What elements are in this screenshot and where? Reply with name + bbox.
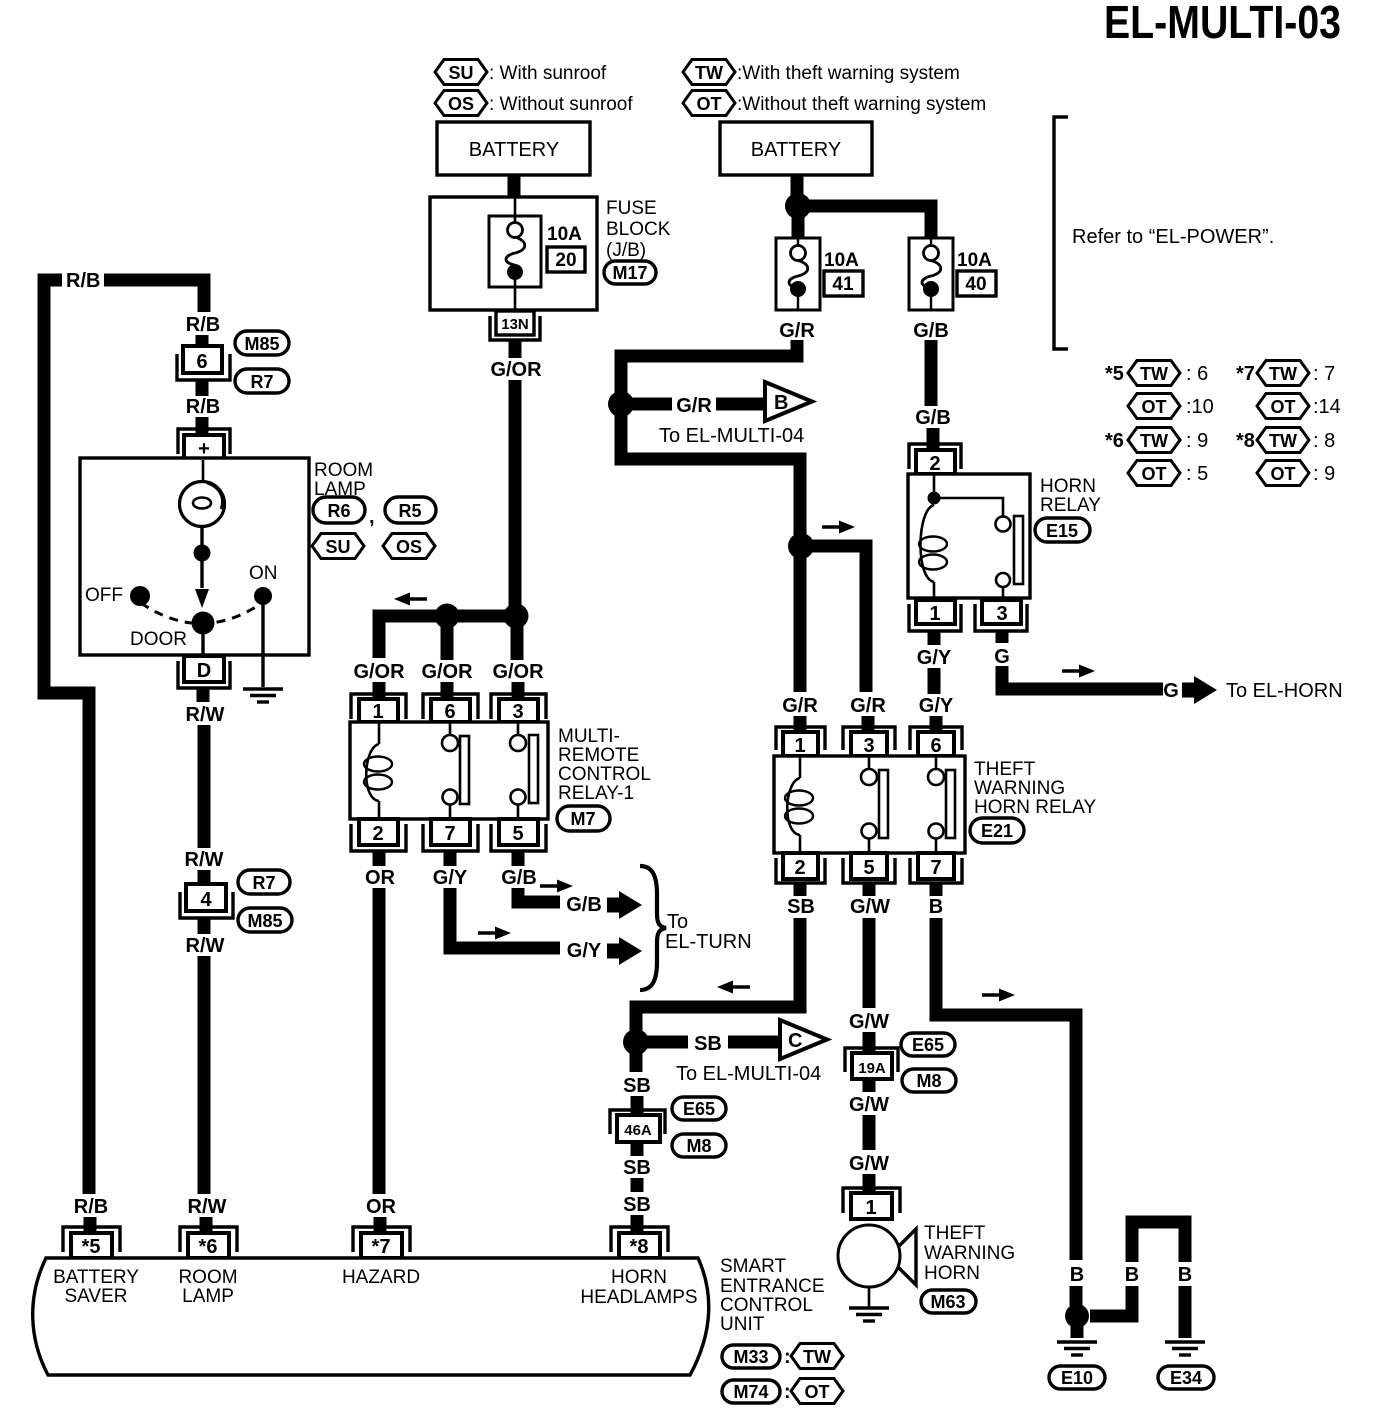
svg-text:TW: TW — [1269, 431, 1297, 451]
svg-text:EL-MULTI-03: EL-MULTI-03 — [1104, 0, 1341, 48]
big arrow to EL-HORN — [1182, 676, 1217, 704]
svg-text:RELAY-1: RELAY-1 — [558, 783, 634, 804]
svg-text:41: 41 — [832, 274, 854, 295]
svg-text:EL-TURN: EL-TURN — [665, 931, 752, 953]
svg-text:TW: TW — [1269, 364, 1297, 384]
wire G/B fuse40 down — [925, 340, 938, 406]
M7 pin 1 — [351, 694, 406, 723]
arrow right above B wire — [982, 989, 1015, 1002]
svg-text:1: 1 — [865, 1197, 876, 1219]
svg-text:M7: M7 — [570, 809, 595, 829]
horn trumpet — [898, 1229, 916, 1285]
svg-text:To EL-MULTI-04: To EL-MULTI-04 — [676, 1063, 821, 1085]
svg-text:TW: TW — [695, 63, 723, 83]
svg-text:M33: M33 — [733, 1347, 768, 1367]
E15 pin 3 — [975, 600, 1027, 631]
svg-text:10A: 10A — [824, 250, 859, 271]
wire OR down to *7 — [373, 888, 386, 1194]
svg-text:E65: E65 — [912, 1035, 944, 1055]
bracket refer to EL-POWER — [1054, 117, 1068, 349]
svg-text:HORN: HORN — [924, 1263, 980, 1284]
wire G/OR feed down to bus — [509, 380, 522, 620]
svg-text:M8: M8 — [686, 1136, 711, 1156]
wire DOOR contact down — [201, 633, 204, 656]
switch contact ON dot — [254, 587, 272, 605]
connector *8 — [611, 1227, 668, 1258]
connector E34 oval — [1158, 1366, 1214, 1389]
svg-text:M63: M63 — [930, 1292, 965, 1312]
svg-text::10: :10 — [1186, 396, 1214, 418]
fuse number 41 box — [824, 271, 863, 296]
wire stub to E15 connector 2 — [927, 428, 940, 450]
svg-text:HORN: HORN — [611, 1267, 667, 1288]
wire stub below M7 pin5 — [512, 851, 525, 866]
wire stub to *5 — [84, 1217, 97, 1234]
node C junction dot — [788, 533, 814, 559]
wire node E to SB label — [645, 1036, 688, 1049]
svg-text:G/W: G/W — [849, 1094, 889, 1116]
svg-text:FUSE: FUSE — [606, 198, 657, 219]
svg-text:G: G — [1163, 680, 1179, 702]
E21 pin 2 — [776, 853, 825, 883]
wire SB down-left to node E — [636, 918, 800, 1034]
svg-text:3: 3 — [863, 735, 874, 757]
room lamp + connector — [178, 429, 230, 460]
svg-text:SAVER: SAVER — [64, 1286, 127, 1307]
E15 pin 1 — [909, 600, 961, 631]
svg-text:SB: SB — [623, 1157, 651, 1179]
wire SB segment — [631, 1178, 644, 1192]
svg-text:G/Y: G/Y — [917, 647, 952, 669]
svg-text:HAZARD: HAZARD — [342, 1267, 420, 1288]
svg-text:ON: ON — [249, 563, 278, 584]
svg-text:G/W: G/W — [849, 1011, 889, 1033]
svg-text:*5: *5 — [1105, 363, 1124, 385]
triangle connector B — [765, 382, 812, 421]
svg-text:D: D — [197, 660, 211, 682]
svg-text:THEFT: THEFT — [924, 1223, 986, 1244]
legend TW hexagon — [683, 60, 735, 85]
connector R5 oval — [385, 497, 436, 523]
junction dot G/OR bus feed — [504, 604, 529, 629]
room lamp box — [80, 458, 309, 655]
connector M85 oval (4) — [238, 908, 292, 932]
connector E10 oval — [1049, 1366, 1105, 1389]
svg-text:R/B: R/B — [186, 396, 220, 418]
connector *7 — [353, 1227, 410, 1258]
svg-text:1: 1 — [929, 603, 940, 625]
svg-text::With theft warning system: :With theft warning system — [737, 63, 960, 84]
fuse number 40 box — [957, 271, 996, 296]
horn connector 1 — [843, 1188, 900, 1219]
svg-text:R6: R6 — [327, 501, 350, 521]
theft warning horn circle — [838, 1225, 900, 1287]
connector M7 oval — [557, 806, 610, 831]
footnote OT 14 — [1257, 394, 1309, 419]
svg-text:R/B: R/B — [74, 1196, 108, 1218]
connector E65 oval (46A) — [672, 1097, 726, 1120]
wire stub to 46A — [631, 1096, 644, 1114]
wire stub to E21 pin6 — [930, 716, 943, 732]
wire node B down to node C — [621, 404, 800, 540]
svg-text:G/R: G/R — [850, 695, 886, 717]
connector 19A — [845, 1048, 898, 1079]
fuse 10A 40 — [909, 238, 953, 310]
OS hexagon (room lamp) — [383, 534, 435, 559]
svg-text:G/Y: G/Y — [567, 940, 602, 962]
E21 contact pin6-7 — [935, 756, 938, 769]
svg-text:To EL-MULTI-04: To EL-MULTI-04 — [659, 425, 804, 447]
svg-text:: 7: : 7 — [1313, 363, 1335, 385]
svg-text:2: 2 — [929, 453, 940, 475]
footnote OT 10 — [1128, 394, 1180, 419]
svg-text:*6: *6 — [199, 1236, 218, 1258]
wire stub below connector 4 — [198, 918, 211, 934]
svg-text:CONTROL: CONTROL — [720, 1295, 813, 1316]
E15 connector 2 — [909, 444, 961, 475]
svg-text:SB: SB — [623, 1075, 651, 1097]
wire G/Y branch — [450, 888, 560, 948]
wire junction to fuse 41 — [792, 206, 805, 238]
svg-text:7: 7 — [444, 823, 455, 845]
svg-text:OFF: OFF — [85, 585, 123, 606]
svg-text:G/W: G/W — [849, 1153, 889, 1175]
wire stub below E21 pin2 — [794, 883, 807, 896]
svg-text:R/W: R/W — [185, 849, 224, 871]
switch dashed arc — [141, 603, 262, 624]
svg-text:ROOM: ROOM — [178, 1267, 237, 1288]
svg-text:SB: SB — [623, 1194, 651, 1216]
svg-text:WARNING: WARNING — [924, 1243, 1015, 1264]
svg-text:OT: OT — [697, 94, 722, 114]
svg-text::: : — [784, 1381, 791, 1403]
svg-text:(J/B): (J/B) — [606, 240, 646, 261]
svg-text:*5: *5 — [82, 1236, 101, 1258]
svg-text:10A: 10A — [547, 224, 582, 245]
switch junction dot — [194, 545, 211, 562]
wire G/Y segment — [928, 668, 941, 694]
svg-text:HEADLAMPS: HEADLAMPS — [580, 1287, 697, 1308]
connector E65 oval (19A) — [901, 1033, 955, 1056]
svg-text:*8: *8 — [1236, 430, 1255, 452]
svg-text:*7: *7 — [372, 1236, 391, 1258]
junction dot below battery B2 — [785, 193, 811, 219]
svg-text:G/Y: G/Y — [433, 867, 468, 889]
M7 pin 7 — [423, 819, 478, 851]
relay M7 body — [350, 722, 548, 819]
svg-text:TW: TW — [1140, 364, 1168, 384]
svg-text:UNIT: UNIT — [720, 1314, 765, 1335]
wire stub below E15 pin3 — [996, 631, 1009, 643]
connector M33 oval — [722, 1345, 780, 1368]
wire stub below E15 pin1 — [928, 631, 941, 645]
svg-text:E15: E15 — [1046, 521, 1078, 541]
svg-text:OT: OT — [1142, 397, 1167, 417]
wire stub to E21 pin3 — [862, 716, 875, 732]
svg-text:E34: E34 — [1170, 1368, 1202, 1388]
SU hexagon (room lamp) — [312, 534, 364, 559]
arrow left above SB wire — [717, 981, 750, 994]
svg-text:*8: *8 — [630, 1236, 649, 1258]
wire R/W segment 1 — [198, 725, 211, 848]
wire bus to G/OR label pin3 — [511, 616, 524, 660]
wire G/R label to triangle B — [716, 398, 764, 411]
wire stub to horn connector — [863, 1174, 876, 1192]
B jumper top bar — [1132, 1222, 1185, 1262]
connector *6 — [180, 1227, 237, 1258]
svg-text:ROOM: ROOM — [314, 460, 373, 481]
svg-text:TW: TW — [1140, 431, 1168, 451]
wire stub to *7 — [374, 1217, 387, 1234]
svg-text:SU: SU — [448, 63, 473, 83]
wire stub below M7 pin2 — [373, 851, 386, 866]
horn relay E15 body — [908, 474, 1030, 598]
wire stub to node F — [1070, 1286, 1083, 1306]
svg-text:ENTRANCE: ENTRANCE — [720, 1276, 825, 1297]
svg-text:R/W: R/W — [188, 1196, 227, 1218]
svg-text:To: To — [667, 911, 688, 933]
triangle connector C — [780, 1020, 827, 1059]
wire stub below 46A — [631, 1142, 644, 1156]
svg-text:OT: OT — [1142, 464, 1167, 484]
svg-text:*6: *6 — [1105, 430, 1124, 452]
wire stub to *8 — [631, 1215, 644, 1233]
svg-text:OT: OT — [805, 1382, 830, 1402]
svg-text:WARNING: WARNING — [974, 778, 1065, 799]
svg-text:To EL-HORN: To EL-HORN — [1226, 680, 1343, 702]
wire stub below E21 pin5 — [863, 883, 876, 896]
svg-text:: 6: : 6 — [1186, 363, 1208, 385]
svg-text:TW: TW — [803, 1347, 831, 1367]
svg-text:R/W: R/W — [186, 704, 225, 726]
E15 internal top line and dot — [933, 474, 936, 492]
OT hexagon (M74) — [791, 1379, 843, 1404]
connector M74 oval — [722, 1380, 780, 1403]
svg-text:R5: R5 — [398, 501, 421, 521]
node B junction dot — [608, 391, 634, 417]
connector E21 oval — [970, 818, 1024, 843]
E15 contact wire to switch — [940, 498, 1003, 516]
connector 13N — [490, 311, 540, 340]
svg-text:B: B — [1070, 1264, 1084, 1286]
svg-text:SB: SB — [787, 896, 815, 918]
svg-text:THEFT: THEFT — [974, 759, 1036, 780]
node F junction dot — [1065, 1304, 1089, 1328]
svg-text:: 9: : 9 — [1313, 463, 1335, 485]
theft warning horn relay E21 body — [774, 756, 965, 853]
legend SU hexagon — [435, 60, 487, 85]
svg-text:46A: 46A — [624, 1122, 652, 1139]
svg-text:SU: SU — [325, 537, 350, 557]
wire stub below 19A — [863, 1079, 876, 1092]
svg-text:G/W: G/W — [850, 896, 890, 918]
big arrow G/Y to EL-TURN — [607, 937, 642, 965]
brace to EL-TURN — [640, 866, 666, 990]
room lamp bulb line — [202, 460, 205, 483]
svg-text:HORN: HORN — [1040, 476, 1096, 497]
wire G/W segment 1 — [863, 918, 876, 1008]
ground E10 symbol — [1057, 1342, 1097, 1355]
svg-text:4: 4 — [200, 889, 212, 911]
big arrow G/B to EL-TURN — [607, 891, 642, 919]
svg-text:G/B: G/B — [501, 867, 537, 889]
svg-text:10A: 10A — [957, 250, 992, 271]
wire node C down — [794, 546, 807, 692]
connector M8 oval (46A) — [672, 1134, 726, 1157]
svg-text:G/OR: G/OR — [353, 661, 405, 683]
wire node C branch right to x866 — [801, 546, 866, 692]
horn ground — [868, 1287, 871, 1307]
svg-text:RELAY: RELAY — [1040, 495, 1101, 516]
wire stub to connector 6 — [196, 335, 209, 348]
connector M85 oval (6) — [235, 331, 289, 355]
svg-text:G/R: G/R — [782, 695, 818, 717]
svg-text:B: B — [929, 896, 943, 918]
M7 contact pin3-5 — [517, 722, 520, 735]
svg-text:OS: OS — [396, 537, 422, 557]
svg-text:MULTI-: MULTI- — [558, 726, 620, 747]
svg-text:G/Y: G/Y — [919, 695, 954, 717]
svg-text:1: 1 — [372, 701, 383, 723]
connector M63 oval — [921, 1290, 976, 1313]
arrow right above G/B branch — [540, 880, 573, 893]
wire stub to 19A — [863, 1032, 876, 1052]
E21 pin 7 — [910, 853, 962, 883]
E21 pin 3 — [843, 727, 895, 757]
svg-text:G/B: G/B — [913, 320, 949, 342]
wire node F to ground E10 — [1071, 1316, 1084, 1338]
svg-text:R/B: R/B — [66, 270, 100, 292]
wire B from E21 pin7 down-right — [936, 918, 1076, 1260]
footnote OT 5 — [1128, 461, 1180, 486]
battery B1 — [437, 122, 590, 175]
arrow right above branch — [822, 521, 855, 534]
svg-text:G/OR: G/OR — [490, 359, 542, 381]
wire stub to M7 pin6 — [441, 682, 454, 700]
connector M8 oval (19A) — [902, 1069, 956, 1092]
wire stub to M7 pin3 — [512, 682, 525, 700]
svg-text:R7: R7 — [252, 873, 275, 893]
svg-text:C: C — [788, 1030, 802, 1052]
svg-text:M8: M8 — [916, 1071, 941, 1091]
wire G to EL-HORN — [1002, 666, 1163, 689]
wire jumper right leg to ground E34 — [1179, 1286, 1192, 1338]
connector R6 oval — [313, 497, 365, 523]
fuse block J/B box — [430, 197, 597, 310]
svg-text:DOOR: DOOR — [130, 629, 187, 650]
legend OS hexagon — [435, 91, 487, 116]
wire jumper left leg to node F — [1090, 1286, 1132, 1316]
wire node E down — [630, 1042, 643, 1072]
wire battery B2 down — [791, 175, 804, 200]
svg-text:SB: SB — [694, 1033, 722, 1055]
wire R/B top horizontal left segment — [44, 280, 62, 287]
connector 46A — [610, 1110, 665, 1142]
svg-text::14: :14 — [1313, 396, 1341, 418]
E15 switch top circle — [996, 517, 1011, 532]
svg-text:B: B — [1125, 1264, 1139, 1286]
wire SB label to triangle C — [728, 1036, 779, 1049]
svg-text:3: 3 — [996, 603, 1007, 625]
svg-text:Refer to “EL-POWER”.: Refer to “EL-POWER”. — [1072, 226, 1274, 248]
wire stub below connector 6 — [196, 380, 209, 396]
E21 pin 5 — [843, 853, 895, 883]
svg-text:: Without sunroof: : Without sunroof — [489, 94, 633, 115]
E21 pin 1 — [776, 727, 825, 757]
wire junction to fuse 40 — [798, 206, 931, 238]
M7 pin 6 — [423, 694, 478, 723]
svg-text:2: 2 — [372, 823, 383, 845]
wire R/B left vertical — [44, 280, 89, 1194]
svg-text:G/B: G/B — [566, 894, 602, 916]
svg-text::Without theft warning system: :Without theft warning system — [737, 94, 986, 115]
svg-text:OR: OR — [365, 867, 396, 889]
svg-text:BLOCK: BLOCK — [606, 219, 671, 240]
wire stub below E21 pin7 — [930, 883, 943, 896]
legend OT hexagon — [683, 91, 735, 116]
svg-text:6: 6 — [196, 351, 207, 373]
svg-text:: 8: : 8 — [1313, 430, 1335, 452]
wire node B to arrow B — [630, 398, 672, 411]
svg-text:*7: *7 — [1236, 363, 1255, 385]
footnote OT 9 — [1257, 461, 1309, 486]
svg-text:BATTERY: BATTERY — [53, 1267, 139, 1288]
svg-text:: 5: : 5 — [1186, 463, 1208, 485]
svg-text:M85: M85 — [247, 911, 282, 931]
svg-text:E21: E21 — [981, 821, 1013, 841]
junction dot G/OR bus pin6 — [435, 604, 460, 629]
svg-text:20: 20 — [555, 250, 576, 271]
fuse number 20 box — [547, 247, 585, 272]
switch contact OFF dot — [130, 586, 150, 606]
svg-text:OS: OS — [448, 94, 474, 114]
fuse 10A 20 — [489, 197, 541, 310]
G/OR bus wire — [379, 616, 517, 658]
svg-text:7: 7 — [930, 857, 941, 879]
M7 contact pin6-7 — [449, 722, 452, 735]
svg-text:13N: 13N — [501, 316, 529, 333]
connector E15 oval — [1035, 518, 1090, 542]
arrow left above G/OR bus — [394, 593, 427, 606]
svg-text:B: B — [1178, 1264, 1192, 1286]
svg-text:3: 3 — [512, 701, 523, 723]
svg-text:B: B — [774, 392, 788, 414]
wire ON contact to ground — [261, 604, 264, 687]
E15 coil — [920, 505, 934, 582]
wire stub below 13N — [509, 340, 522, 358]
connector 6 (M85/R7) — [177, 346, 230, 380]
M7 pin 2 — [351, 819, 406, 851]
connector R7 oval (6) — [235, 369, 289, 393]
wire stub to + — [196, 417, 209, 436]
wire G/R from fuse 41 to node B — [621, 340, 797, 398]
connector 4 (R7/M85) — [180, 884, 233, 918]
node E junction dot — [623, 1029, 649, 1055]
svg-text:LAMP: LAMP — [182, 1286, 234, 1307]
svg-text:M85: M85 — [244, 334, 279, 354]
wire stub to connector 4 — [198, 870, 211, 890]
svg-text:G: G — [994, 646, 1010, 668]
E21 pin 6 — [910, 727, 962, 757]
svg-text:G/B: G/B — [915, 407, 951, 429]
svg-text:6: 6 — [930, 735, 941, 757]
svg-text:6: 6 — [444, 701, 455, 723]
fuse 10A 41 — [776, 238, 820, 310]
svg-text:CONTROL: CONTROL — [558, 764, 651, 785]
wire stub below D — [197, 688, 210, 702]
svg-text:BATTERY: BATTERY — [751, 139, 841, 161]
switch arm arrow — [200, 553, 203, 588]
